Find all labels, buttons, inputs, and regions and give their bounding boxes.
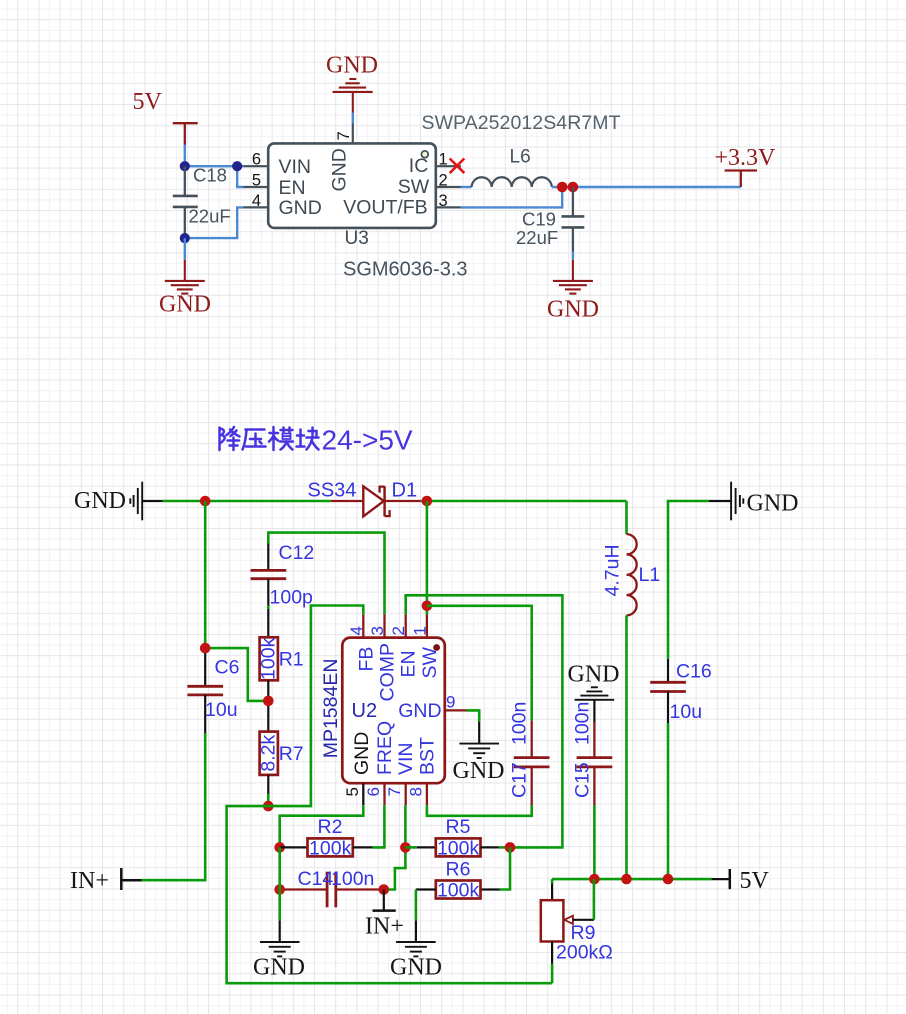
wire rail to C6	[204, 501, 207, 648]
pin 1 SW	[426, 614, 428, 637]
diode D1 SS34	[331, 486, 421, 516]
svg-text:SW: SW	[398, 176, 430, 198]
wire GND to pin7	[352, 113, 354, 124]
svg-text:8: 8	[406, 787, 425, 796]
node junction rail-C16	[663, 874, 674, 885]
title 24-5V buck module	[220, 427, 319, 450]
svg-text:R2: R2	[318, 816, 343, 838]
wire pin7 column	[384, 805, 406, 889]
pin 3 COMP	[383, 614, 385, 637]
svg-text:24->5V: 24->5V	[322, 425, 413, 456]
resistor R6	[481, 888, 500, 890]
svg-text:C15: C15	[571, 762, 593, 798]
wire L1 top	[625, 501, 628, 534]
svg-text:EN: EN	[398, 650, 420, 677]
node junction C6 top	[200, 643, 211, 654]
hanzi jiang	[220, 427, 240, 450]
op-amp U3 body	[268, 143, 436, 228]
svg-text:U2: U2	[352, 700, 378, 722]
node junction VIN row	[400, 842, 411, 853]
capacitor C16	[650, 659, 686, 723]
pin 2	[436, 186, 461, 188]
svg-text:FREQ: FREQ	[374, 721, 396, 775]
svg-text:3: 3	[439, 192, 448, 210]
inductor L1	[627, 534, 637, 615]
svg-text:U3: U3	[345, 228, 369, 249]
svg-text:4: 4	[252, 192, 261, 210]
svg-text:L6: L6	[510, 147, 531, 168]
wire C17 to BST	[427, 805, 532, 816]
svg-text:100k: 100k	[437, 879, 480, 901]
node junction C	[180, 233, 190, 243]
pin 1 inversion circle	[421, 151, 428, 158]
port IN+ bottom	[373, 890, 396, 911]
wire L6 to node	[552, 186, 573, 188]
wire C14 left to GND	[278, 847, 281, 920]
capacitor C14	[280, 888, 327, 890]
wire C15 to 5V rail	[593, 805, 596, 879]
svg-text:SWPA252012S4R7MT: SWPA252012S4R7MT	[422, 112, 621, 134]
pin 4	[243, 206, 268, 208]
power flag 5V	[173, 123, 198, 144]
svg-text:GND: GND	[568, 662, 620, 688]
pin 7 VIN	[405, 783, 407, 805]
wire C6 to IN+	[142, 733, 206, 880]
svg-text:COMP: COMP	[376, 643, 398, 702]
wire R5 right to node	[499, 846, 510, 849]
capacitor C12	[251, 544, 287, 606]
node junction D1-SW	[422, 496, 433, 507]
resistor R1	[260, 637, 278, 680]
svg-text:100p: 100p	[270, 587, 314, 609]
ground GND bottom-left	[165, 260, 205, 294]
wire R5 node to R6	[500, 847, 510, 889]
wire stub below C12	[267, 606, 270, 610]
svg-text:22uF: 22uF	[516, 227, 558, 248]
node junction R1-R7	[263, 696, 274, 707]
wire node to +3.3V	[573, 186, 741, 188]
svg-text:GND: GND	[547, 296, 599, 322]
svg-text:8.2k: 8.2k	[257, 735, 279, 772]
wire SW to C17	[427, 606, 532, 721]
svg-text:GND: GND	[351, 732, 373, 775]
pin 7	[352, 124, 354, 144]
svg-text:R7: R7	[279, 743, 304, 765]
svg-text:GND: GND	[326, 53, 378, 79]
wire C12 top	[268, 533, 384, 615]
svg-text:SW: SW	[419, 646, 441, 678]
wire C6 node to R1R7 node	[205, 648, 268, 701]
capacitor C17	[514, 721, 550, 806]
svg-text:VIN: VIN	[279, 156, 312, 178]
svg-text:6: 6	[364, 787, 383, 796]
ground GND mid right	[396, 920, 436, 956]
port 5V right	[712, 869, 730, 889]
svg-text:L1: L1	[639, 564, 661, 586]
svg-text:22uF: 22uF	[189, 206, 231, 227]
hanzi ya	[243, 430, 266, 450]
wire 5V to node	[184, 145, 186, 167]
ground GND top	[333, 79, 373, 113]
hanzi kuai	[297, 428, 319, 450]
ground GND mid left	[260, 920, 300, 956]
svg-text:200kΩ: 200kΩ	[556, 942, 613, 964]
pin 3	[436, 206, 461, 208]
node junction R5 right	[505, 842, 516, 853]
wire FB riser	[268, 606, 363, 807]
node junction R2 left	[274, 842, 285, 853]
pin 5 GND	[362, 783, 364, 805]
pin 2 EN	[405, 614, 407, 637]
svg-text:1: 1	[410, 626, 429, 635]
power flag +3.3V	[725, 171, 757, 188]
svg-text:2: 2	[389, 626, 408, 635]
wire 5V rail	[552, 878, 712, 881]
capacitor C6	[187, 648, 223, 733]
capacitor C19	[562, 187, 585, 252]
svg-text:100n: 100n	[331, 868, 374, 890]
ground port GND right	[709, 482, 743, 521]
svg-text:4: 4	[347, 626, 366, 635]
pin 6	[243, 165, 268, 167]
ground pin9 GND	[467, 710, 480, 722]
svg-text:SGM6036-3.3: SGM6036-3.3	[343, 259, 468, 281]
wire FB node to rail down	[227, 806, 552, 983]
svg-text:D1: D1	[392, 480, 418, 502]
node junction C14 right	[379, 884, 390, 895]
node junction rail-L1	[621, 874, 632, 885]
svg-text:IN+: IN+	[70, 868, 109, 894]
node junction A	[180, 161, 190, 171]
node junction B	[232, 161, 242, 171]
svg-text:10u: 10u	[670, 701, 703, 723]
wire FB feedback	[461, 187, 562, 207]
wire C18 bottom to pin4	[185, 207, 243, 238]
svg-text:9: 9	[446, 693, 455, 712]
svg-text:10u: 10u	[205, 699, 238, 721]
wire top rail right of D1	[421, 500, 627, 503]
resistor R5	[417, 846, 436, 848]
wire R7 bottom	[267, 775, 269, 794]
wiper arrow R9	[564, 916, 573, 924]
svg-text:100n: 100n	[571, 702, 593, 745]
svg-text:FB: FB	[355, 647, 377, 672]
svg-text:C16: C16	[676, 661, 712, 683]
node junction SW-C17	[422, 601, 433, 612]
svg-text:3: 3	[368, 626, 387, 635]
svg-text:GND: GND	[253, 955, 305, 981]
wire EN drop	[237, 166, 243, 187]
node junction rail-C15	[589, 874, 600, 885]
wire R6 left to GND	[415, 890, 418, 921]
wire C12 to R1	[267, 609, 269, 637]
wire SW column	[426, 501, 429, 614]
svg-text:100k: 100k	[437, 837, 480, 859]
resistor R7	[260, 732, 278, 775]
wire C18 to GND	[184, 238, 186, 260]
svg-text:100k: 100k	[309, 837, 352, 859]
svg-text:GND: GND	[453, 758, 505, 784]
capacitor C18	[173, 166, 198, 238]
wire R2 right to pin6	[373, 805, 385, 847]
svg-text:7: 7	[335, 131, 353, 140]
svg-text:6: 6	[252, 151, 261, 169]
port IN+ left	[121, 868, 141, 890]
svg-text:C18: C18	[193, 164, 227, 185]
hanzi mo	[269, 427, 293, 450]
no-connect X on pin 1	[450, 159, 465, 174]
wire pin5 to GND column	[280, 805, 364, 847]
svg-text:C6: C6	[215, 657, 240, 679]
svg-text:R6: R6	[446, 859, 471, 881]
wire SW to L6	[461, 186, 472, 188]
wire EN row	[406, 595, 563, 847]
capacitor C15	[577, 722, 613, 805]
pin 6 FREQ	[383, 783, 385, 805]
node junction rail-C6	[200, 496, 211, 507]
svg-text:+3.3V: +3.3V	[715, 145, 777, 171]
svg-text:100n: 100n	[509, 702, 531, 745]
svg-text:R5: R5	[446, 816, 471, 838]
svg-text:C12: C12	[279, 542, 315, 564]
pin 9 GND right	[445, 709, 467, 711]
svg-text:100k: 100k	[257, 637, 279, 680]
node junction D	[557, 182, 568, 193]
svg-text:VIN: VIN	[395, 742, 417, 775]
wire R1 to R7	[267, 680, 269, 731]
pin 5	[243, 186, 268, 188]
svg-text:4.7uH: 4.7uH	[602, 544, 624, 596]
wire wiper to rail	[593, 879, 596, 920]
pin 8 BST	[426, 783, 428, 805]
wire C19 to GND	[572, 252, 574, 260]
ground GND right	[553, 260, 593, 294]
svg-text:5V: 5V	[740, 868, 770, 894]
node junction C14 left	[274, 884, 285, 895]
svg-text:C17: C17	[509, 762, 531, 798]
svg-text:GND: GND	[328, 148, 350, 191]
svg-text:5V: 5V	[133, 89, 163, 115]
wire C16 to 5V rail	[667, 723, 670, 879]
wire top rail left	[163, 500, 331, 503]
svg-text:R1: R1	[279, 649, 304, 671]
wire junction to R5	[405, 846, 417, 849]
svg-text:GND: GND	[74, 488, 126, 514]
svg-text:C14: C14	[298, 868, 334, 890]
pin 1	[436, 165, 461, 167]
svg-text:2: 2	[439, 171, 448, 189]
svg-text:BST: BST	[416, 737, 438, 775]
svg-text:VOUT/FB: VOUT/FB	[343, 196, 428, 218]
node junction E	[568, 182, 579, 193]
svg-text:IN+: IN+	[365, 914, 404, 940]
svg-text:SS34: SS34	[308, 480, 357, 502]
svg-text:MP1584EN: MP1584EN	[320, 659, 342, 759]
svg-text:GND: GND	[279, 197, 322, 219]
node junction FB	[263, 801, 274, 812]
potentiometer R9	[551, 879, 554, 883]
pin 4 FB	[362, 614, 364, 637]
svg-text:GND: GND	[747, 491, 799, 517]
svg-text:5: 5	[343, 787, 362, 796]
wire L1 bottom to 5V rail	[625, 615, 628, 879]
wire VIN rail	[185, 165, 243, 167]
svg-text:7: 7	[385, 787, 404, 796]
svg-text:GND: GND	[398, 700, 441, 722]
svg-text:5: 5	[252, 171, 261, 189]
svg-text:GND: GND	[159, 291, 211, 317]
svg-text:GND: GND	[390, 955, 442, 981]
IC U2 body	[342, 638, 445, 784]
svg-text:1: 1	[439, 151, 448, 169]
inductor L6	[472, 177, 552, 187]
svg-text:EN: EN	[279, 177, 306, 199]
wire C16 top segment	[668, 501, 709, 659]
pin SW internal dot	[433, 644, 440, 651]
resistor R2	[280, 846, 308, 848]
